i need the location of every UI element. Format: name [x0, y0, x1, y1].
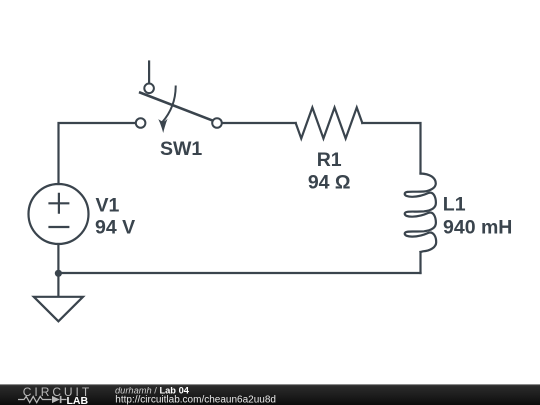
svg-text:94 Ω: 94 Ω [308, 171, 351, 193]
svg-text:http://circuitlab.com/cheaun6a: http://circuitlab.com/cheaun6a2uu8d [115, 395, 276, 405]
switch SW1 top terminal circle [144, 84, 154, 94]
switch SW1 left terminal circle [136, 118, 146, 128]
svg-text:L1: L1 [443, 193, 466, 215]
switch SW1 blade [140, 93, 213, 121]
wire: switch top stub [148, 62, 150, 84]
wire: resistor R1 to top-right corner down to inductor L1 [362, 123, 420, 174]
logo diode bar [60, 396, 62, 403]
switch SW1 arrowhead [158, 119, 167, 133]
svg-text:V1: V1 [96, 194, 120, 216]
wire top-left: V1 top to switch left terminal [59, 123, 136, 184]
ground symbol [34, 297, 83, 322]
footer bar [0, 384, 540, 405]
switch SW1 right terminal circle [212, 118, 222, 128]
svg-text:94 V: 94 V [95, 217, 135, 239]
junction node dot [55, 270, 62, 277]
V1 plus sign [50, 194, 69, 213]
voltage source V1 circle [29, 184, 89, 244]
svg-text:LAB: LAB [67, 395, 89, 405]
logo waveform [18, 396, 67, 402]
wire: V1 bottom to ground node [57, 244, 59, 297]
svg-text:R1: R1 [317, 149, 342, 171]
wire: bottom rail [58, 272, 420, 274]
inductor L1 coil [405, 174, 437, 253]
V1 minus sign [50, 226, 69, 228]
svg-text:SW1: SW1 [160, 138, 202, 160]
resistor R1 zigzag [296, 108, 363, 139]
logo diode triangle [52, 396, 60, 403]
wire: switch right terminal to resistor R1 [222, 122, 296, 124]
wire: inductor L1 bottom to bottom rail [419, 252, 421, 273]
switch SW1 actuator arc [162, 87, 176, 123]
svg-text:940 mH: 940 mH [443, 217, 512, 239]
